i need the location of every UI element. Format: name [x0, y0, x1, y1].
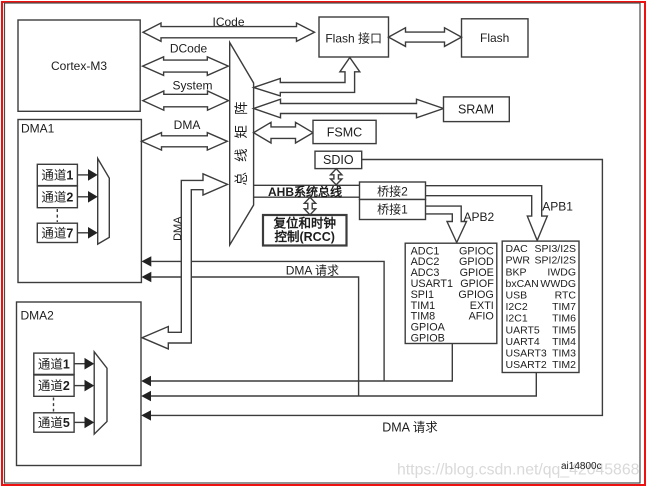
svg-text:TIM5: TIM5: [552, 324, 576, 336]
SDIO to AHB arrow: [331, 169, 342, 185]
DMA2 bus elbow arrow: [142, 174, 228, 349]
svg-text:bxCAN: bxCAN: [506, 278, 539, 290]
AHB to RCC arrow: [304, 197, 315, 215]
svg-text:总线矩阵: 总线矩阵: [234, 91, 249, 185]
arrowhead: DMA2 channel 1: [85, 358, 95, 370]
FSMC box: [313, 120, 376, 143]
svg-text:通道7: 通道7: [41, 227, 73, 241]
svg-text:TIM6: TIM6: [552, 313, 576, 325]
svg-text:SRAM: SRAM: [458, 103, 494, 117]
svg-text:ai14800c: ai14800c: [561, 461, 602, 472]
svg-text:通道1: 通道1: [38, 357, 70, 371]
svg-text:通道2: 通道2: [38, 379, 70, 393]
svg-text:复位和时钟: 复位和时钟: [272, 216, 336, 231]
svg-text:ICode: ICode: [212, 15, 244, 29]
FSMC bus arrow: [254, 122, 314, 143]
APB2 bus elbow from bridge 1: [426, 206, 467, 242]
APB2 peripherals box: [405, 243, 497, 343]
svg-text:WWDG: WWDG: [540, 278, 576, 290]
DMA2 channel 2 box: [34, 375, 74, 396]
wire: DMA1 channel 7 to funnel: [77, 232, 89, 234]
wire: branch of APB2 DMA request up to DMA1: [151, 261, 384, 381]
wire: DMA1 channel 2 to funnel: [77, 196, 89, 198]
svg-text:AHB系统总线: AHB系统总线: [268, 184, 342, 199]
svg-text:APB2: APB2: [464, 210, 495, 224]
svg-text:AFIO: AFIO: [469, 311, 494, 323]
arrowhead: APB2 request into DMA2: [141, 376, 151, 386]
svg-text:USART3: USART3: [506, 348, 547, 360]
arrowhead: APB1 request into DMA2: [141, 391, 151, 401]
svg-text:PWR: PWR: [506, 255, 531, 267]
svg-text:FSMC: FSMC: [327, 126, 362, 140]
svg-text:SPI3/I2S: SPI3/I2S: [535, 243, 576, 255]
DMA1 box: [18, 120, 141, 283]
wire: DMA1 channel 1 to funnel: [77, 174, 89, 176]
arrowhead: APB1 request into DMA1: [142, 272, 152, 282]
APB1 peripherals box: [502, 241, 579, 372]
svg-text:桥接2: 桥接2: [377, 184, 408, 199]
svg-text:DMA 请求: DMA 请求: [382, 421, 438, 435]
arrowhead: DMA1 channel 7: [88, 227, 98, 239]
svg-text:UART4: UART4: [506, 336, 540, 348]
Flash interface box: [319, 17, 389, 57]
wire: DMA2 channel 5 to funnel: [74, 421, 85, 423]
svg-text:GPIOB: GPIOB: [411, 333, 445, 345]
DMA1 channel labels: [38, 169, 73, 431]
Flash box: [462, 19, 529, 57]
bus matrix: [230, 43, 254, 246]
SRAM box: [444, 97, 510, 122]
DCode bus arrow: [143, 57, 229, 76]
svg-text:DMA 请求: DMA 请求: [286, 264, 339, 278]
DMA1 dashed line: [56, 209, 58, 222]
svg-text:桥接1: 桥接1: [377, 202, 408, 217]
svg-text:通道5: 通道5: [38, 416, 70, 430]
svg-text:DMA: DMA: [174, 118, 201, 132]
DMA2 box: [17, 302, 142, 466]
wire: DMA request net from APB2 peripherals: [151, 344, 452, 382]
wire: SDIO DMA request line: [151, 160, 602, 416]
svg-text:DMA2: DMA2: [21, 309, 55, 323]
svg-text:Cortex-M3: Cortex-M3: [51, 59, 107, 73]
svg-text:DMA: DMA: [172, 216, 184, 241]
svg-text:Flash 接口: Flash 接口: [325, 31, 382, 46]
AHB bus line top: [254, 184, 360, 186]
wire: DMA2 channel 1 to funnel: [74, 363, 85, 365]
DMA bus arrow: [142, 133, 228, 151]
svg-text:SPI2/I2S: SPI2/I2S: [535, 255, 576, 267]
svg-text:TIM3: TIM3: [552, 348, 576, 360]
svg-text:DCode: DCode: [170, 42, 208, 56]
svg-text:DAC: DAC: [506, 243, 529, 255]
DMA1 channel 1 box: [37, 164, 77, 185]
arrowhead: APB2 request into DMA1: [142, 256, 152, 266]
APB1 bus elbow from bridge 2: [426, 186, 548, 241]
ICode bus arrow: [143, 23, 315, 41]
svg-text:https://blog.csdn.net/qq_42045: https://blog.csdn.net/qq_42045868: [397, 462, 640, 479]
svg-text:SDIO: SDIO: [323, 153, 354, 167]
SDIO box: [315, 151, 362, 168]
svg-text:USB: USB: [506, 290, 528, 302]
RCC box: [263, 215, 347, 246]
wire: DMA2 channel 2 to funnel: [74, 385, 85, 387]
svg-text:TIM2: TIM2: [552, 359, 576, 371]
svg-text:APB1: APB1: [542, 200, 573, 214]
System bus arrow: [143, 91, 229, 110]
DMA2 channel 1 box: [34, 353, 74, 374]
APB2 peripheral list right column: [458, 245, 494, 322]
SRAM bus arrow: [254, 99, 444, 118]
svg-text:Flash: Flash: [480, 31, 509, 45]
svg-text:I2C2: I2C2: [506, 301, 528, 313]
DMA1 channel 7 box: [37, 223, 77, 242]
svg-text:DMA1: DMA1: [21, 122, 55, 136]
Cortex-M3 box: [18, 20, 140, 111]
DMA2 funnel: [94, 352, 107, 434]
wire: branch of APB1 DMA request up to DMA1: [151, 277, 358, 396]
svg-text:通道2: 通道2: [41, 190, 73, 204]
svg-text:USART2: USART2: [506, 359, 547, 371]
DMA2 dashed line: [53, 398, 55, 412]
arrowhead: DMA2 channel 5: [85, 417, 95, 429]
bridge 1 box: [360, 200, 426, 220]
arrowhead: SDIO request into DMA2: [141, 410, 151, 420]
APB1 peripheral list right column: [535, 243, 577, 371]
arrowhead: DMA1 channel 1: [88, 169, 98, 181]
DMA1 funnel: [98, 159, 110, 245]
APB1 peripheral list left column: [506, 243, 547, 371]
svg-text:System: System: [172, 79, 212, 93]
APB2 peripheral list left column: [411, 245, 453, 344]
bridge 2 box: [360, 182, 426, 200]
Flash interface to Flash arrow: [389, 28, 462, 47]
AHB bus line bottom: [254, 196, 360, 198]
arrowhead: DMA2 channel 2: [85, 380, 95, 392]
svg-text:TIM4: TIM4: [552, 336, 576, 348]
DMA2 channel 5 box: [34, 413, 74, 432]
svg-text:UART5: UART5: [506, 324, 540, 336]
arrowhead: DMA1 channel 2: [88, 191, 98, 203]
svg-text:通道1: 通道1: [41, 169, 73, 183]
svg-text:I2C1: I2C1: [506, 313, 528, 325]
svg-text:IWDG: IWDG: [547, 266, 576, 278]
wire: DMA request net from APB1 peripherals: [151, 373, 536, 397]
svg-text:BKP: BKP: [506, 266, 527, 278]
Flash interface feed arrow from bus matrix: [254, 58, 360, 96]
svg-text:控制(RCC): 控制(RCC): [274, 229, 334, 244]
svg-text:TIM7: TIM7: [552, 301, 576, 313]
DMA1 channel 2 box: [37, 186, 77, 208]
svg-text:RTC: RTC: [555, 290, 577, 302]
